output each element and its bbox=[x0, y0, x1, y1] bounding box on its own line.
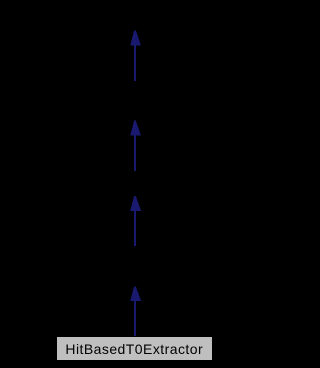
arrow 1 (topmost inheritance arrow) bbox=[130, 30, 141, 81]
arrow 2 bbox=[130, 121, 141, 171]
class box HitBasedT0Extractor bbox=[57, 337, 212, 360]
arrow 4 (into HitBasedT0Extractor box) bbox=[130, 286, 141, 337]
arrow 3 bbox=[130, 196, 141, 246]
